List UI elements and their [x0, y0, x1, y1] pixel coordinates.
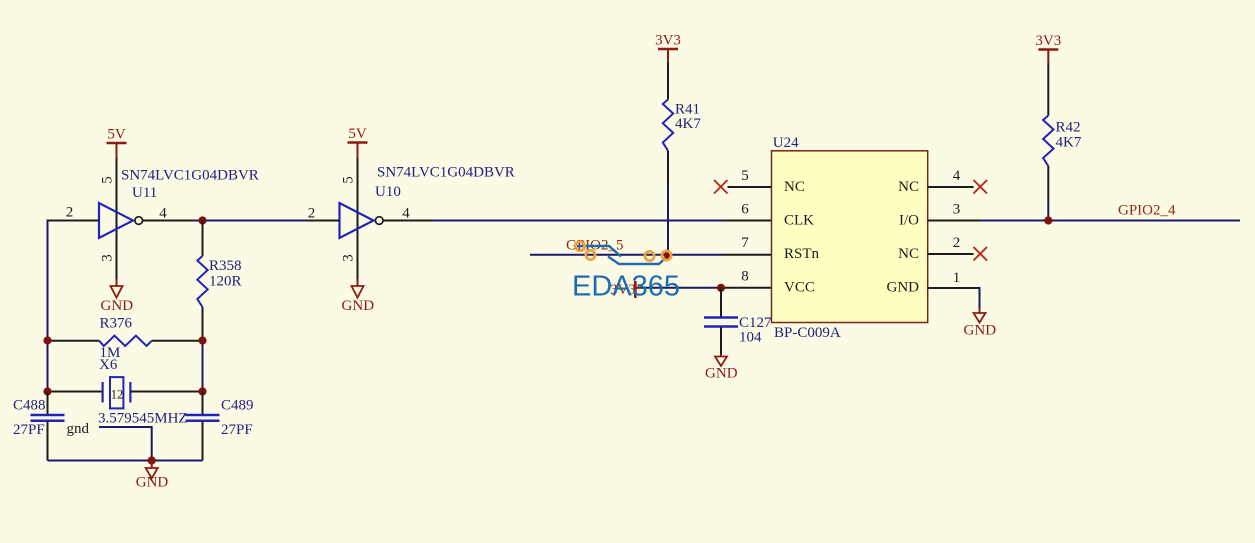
svg-text:5: 5: [741, 168, 749, 184]
svg-text:X6: X6: [99, 357, 118, 373]
pin 1 stub: [928, 287, 974, 289]
svg-text:104: 104: [739, 330, 762, 346]
svg-text:R358: R358: [209, 258, 242, 274]
power 3V3 symbol R41: [655, 33, 681, 64]
pin 8 stub U24: [721, 287, 772, 289]
pin 7 stub U24: [722, 254, 772, 256]
ground symbol U11: [101, 279, 134, 314]
wire pin3 vertical U10: [357, 221, 359, 280]
vertex marker ring 4: [662, 251, 671, 260]
svg-text:NC: NC: [898, 246, 919, 262]
svg-text:5: 5: [341, 176, 357, 184]
svg-text:SN74LVC1G04DBVR: SN74LVC1G04DBVR: [377, 164, 515, 180]
svg-text:8: 8: [741, 269, 749, 285]
no-connect X pin 5: [714, 180, 728, 194]
svg-text:5: 5: [100, 176, 116, 184]
wire R358 top: [202, 221, 204, 257]
svg-text:3V3: 3V3: [655, 33, 681, 49]
pin 5 stub: [728, 186, 772, 188]
wire gnd stub: [99, 427, 152, 461]
svg-text:I/O: I/O: [899, 213, 919, 229]
svg-text:GND: GND: [887, 280, 920, 296]
svg-text:120R: 120R: [209, 273, 242, 289]
svg-text:4K7: 4K7: [1056, 135, 1082, 151]
junction node GPIO2_4: [1044, 216, 1052, 224]
wire pin5 vertical U11: [116, 158, 118, 221]
no-connect X pin 4: [974, 180, 988, 194]
junction node loop top-right: [198, 336, 206, 344]
pin 6 stub U24: [722, 220, 772, 222]
wire U11 out to U10 in: [192, 220, 308, 222]
wire R41 bottom black: [667, 151, 669, 184]
inverter U10 triangle: [340, 203, 374, 238]
pin 2 stub: [928, 253, 974, 255]
resistor R42: [1043, 116, 1053, 167]
wire R376 right: [152, 340, 203, 342]
svg-text:U10: U10: [375, 184, 401, 200]
wire GPIO2_5: [530, 254, 722, 256]
ground symbol C127: [705, 355, 738, 382]
vertex marker ring 1: [575, 242, 584, 251]
svg-text:3V3: 3V3: [1035, 33, 1061, 49]
inverter U11 triangle: [99, 203, 133, 238]
svg-text:C489: C489: [221, 398, 254, 414]
svg-text:2: 2: [308, 205, 316, 221]
svg-text:GND: GND: [342, 298, 375, 314]
svg-text:3: 3: [341, 254, 357, 262]
wire VCC: [641, 287, 721, 289]
wire left vertical from U11 input: [47, 220, 49, 341]
pin 2 stub U11: [47, 220, 100, 222]
junction node crystal right: [198, 387, 206, 395]
svg-text:5V: 5V: [107, 127, 126, 143]
wire dragged segment upper: [577, 246, 621, 257]
svg-text:6: 6: [741, 202, 749, 218]
junction node RSTn: [664, 251, 672, 259]
ground symbol U10: [342, 279, 375, 314]
wire pin5 vertical U10: [357, 158, 359, 221]
svg-text:NC: NC: [784, 179, 805, 195]
vertex marker ring 3: [645, 251, 654, 260]
capacitor C127: [704, 288, 738, 355]
wire crystal left: [48, 391, 103, 393]
svg-text:RSTn: RSTn: [784, 246, 820, 262]
capacitor C488: [31, 392, 65, 461]
pin 2 stub U10: [308, 220, 340, 222]
svg-text:4K7: 4K7: [675, 116, 701, 132]
wire R376 left: [48, 340, 100, 342]
wire U10 out to U24 CLK: [432, 220, 722, 222]
power 5V symbol U11: [107, 127, 127, 159]
resistor R376: [99, 336, 151, 346]
svg-text:27PF: 27PF: [221, 422, 253, 438]
resistor R41: [663, 100, 673, 151]
pin 3 stub: [928, 220, 982, 222]
junction node loop top-left: [43, 336, 51, 344]
pin 4 stub U10: [383, 220, 432, 222]
svg-text:SN74LVC1G04DBVR: SN74LVC1G04DBVR: [121, 167, 259, 183]
svg-text:7: 7: [741, 235, 749, 251]
svg-text:GND: GND: [101, 298, 134, 314]
svg-text:4: 4: [953, 168, 961, 184]
svg-text:BP-C009A: BP-C009A: [774, 325, 841, 341]
ground symbol crystal: [136, 461, 169, 491]
svg-text:C488: C488: [13, 398, 46, 414]
junction node U11 out: [198, 216, 206, 224]
wire pin3 vertical U11: [116, 221, 118, 280]
svg-text:R376: R376: [100, 316, 133, 332]
capacitor C489: [186, 392, 220, 461]
svg-text:5V: 5V: [348, 126, 367, 142]
svg-text:GND: GND: [964, 323, 997, 339]
wire bottom rail: [48, 460, 203, 462]
wire left vertical mid: [47, 341, 49, 392]
svg-text:EDA365: EDA365: [572, 271, 680, 303]
inverter U11 bubble: [135, 217, 143, 225]
svg-text:2: 2: [953, 235, 961, 251]
power 3V3 symbol VCC (hidden behind watermark): [610, 281, 641, 298]
wire R42 top: [1047, 63, 1049, 116]
power 5V symbol U10: [348, 126, 368, 158]
svg-text:3: 3: [953, 202, 961, 218]
wire pin1 to ground: [974, 288, 980, 308]
no-connect X pin 2: [974, 247, 988, 261]
svg-text:4: 4: [159, 205, 167, 221]
svg-text:3.579545MHZ: 3.579545MHZ: [98, 410, 188, 426]
svg-text:27PF: 27PF: [13, 422, 45, 438]
svg-text:4: 4: [402, 205, 410, 221]
svg-text:CLK: CLK: [784, 213, 814, 229]
wire R358 bottom: [202, 307, 204, 341]
svg-text:GND: GND: [136, 475, 169, 491]
svg-text:NC: NC: [898, 179, 919, 195]
svg-text:3: 3: [100, 254, 116, 262]
wire R42 to GPIO2_4: [1047, 199, 1049, 221]
svg-text:1: 1: [953, 270, 961, 286]
vertex marker ring 2: [586, 250, 595, 259]
inverter U10 bubble: [375, 217, 383, 225]
wire R41 to RSTn: [667, 184, 669, 255]
svg-text:VCC: VCC: [784, 280, 815, 296]
svg-text:GND: GND: [705, 366, 738, 382]
power 3V3 symbol R42: [1035, 33, 1061, 63]
junction node bottom rail: [148, 456, 156, 464]
pin 4 stub U11: [143, 220, 193, 222]
svg-text:U24: U24: [773, 135, 799, 151]
wire dragged segment lower: [608, 256, 668, 265]
svg-text:U11: U11: [132, 185, 157, 201]
svg-text:R42: R42: [1056, 120, 1081, 136]
wire GPIO2_4: [982, 220, 1240, 222]
wire right vertical mid: [202, 341, 204, 392]
junction node VCC: [717, 284, 725, 292]
svg-text:12: 12: [111, 388, 124, 402]
IC body U24: [772, 151, 928, 323]
ground symbol pin1: [964, 308, 997, 339]
svg-text:2: 2: [66, 205, 74, 221]
junction node crystal left: [43, 387, 51, 395]
resistor R358: [197, 256, 207, 307]
pin 4 stub: [928, 186, 974, 188]
crystal X6: [103, 377, 131, 408]
wire R41 top: [667, 63, 669, 100]
svg-text:gnd: gnd: [67, 421, 90, 437]
wire crystal right: [130, 391, 202, 393]
wire R42 bottom: [1047, 166, 1049, 199]
svg-text:GPIO2_4: GPIO2_4: [1118, 203, 1176, 219]
